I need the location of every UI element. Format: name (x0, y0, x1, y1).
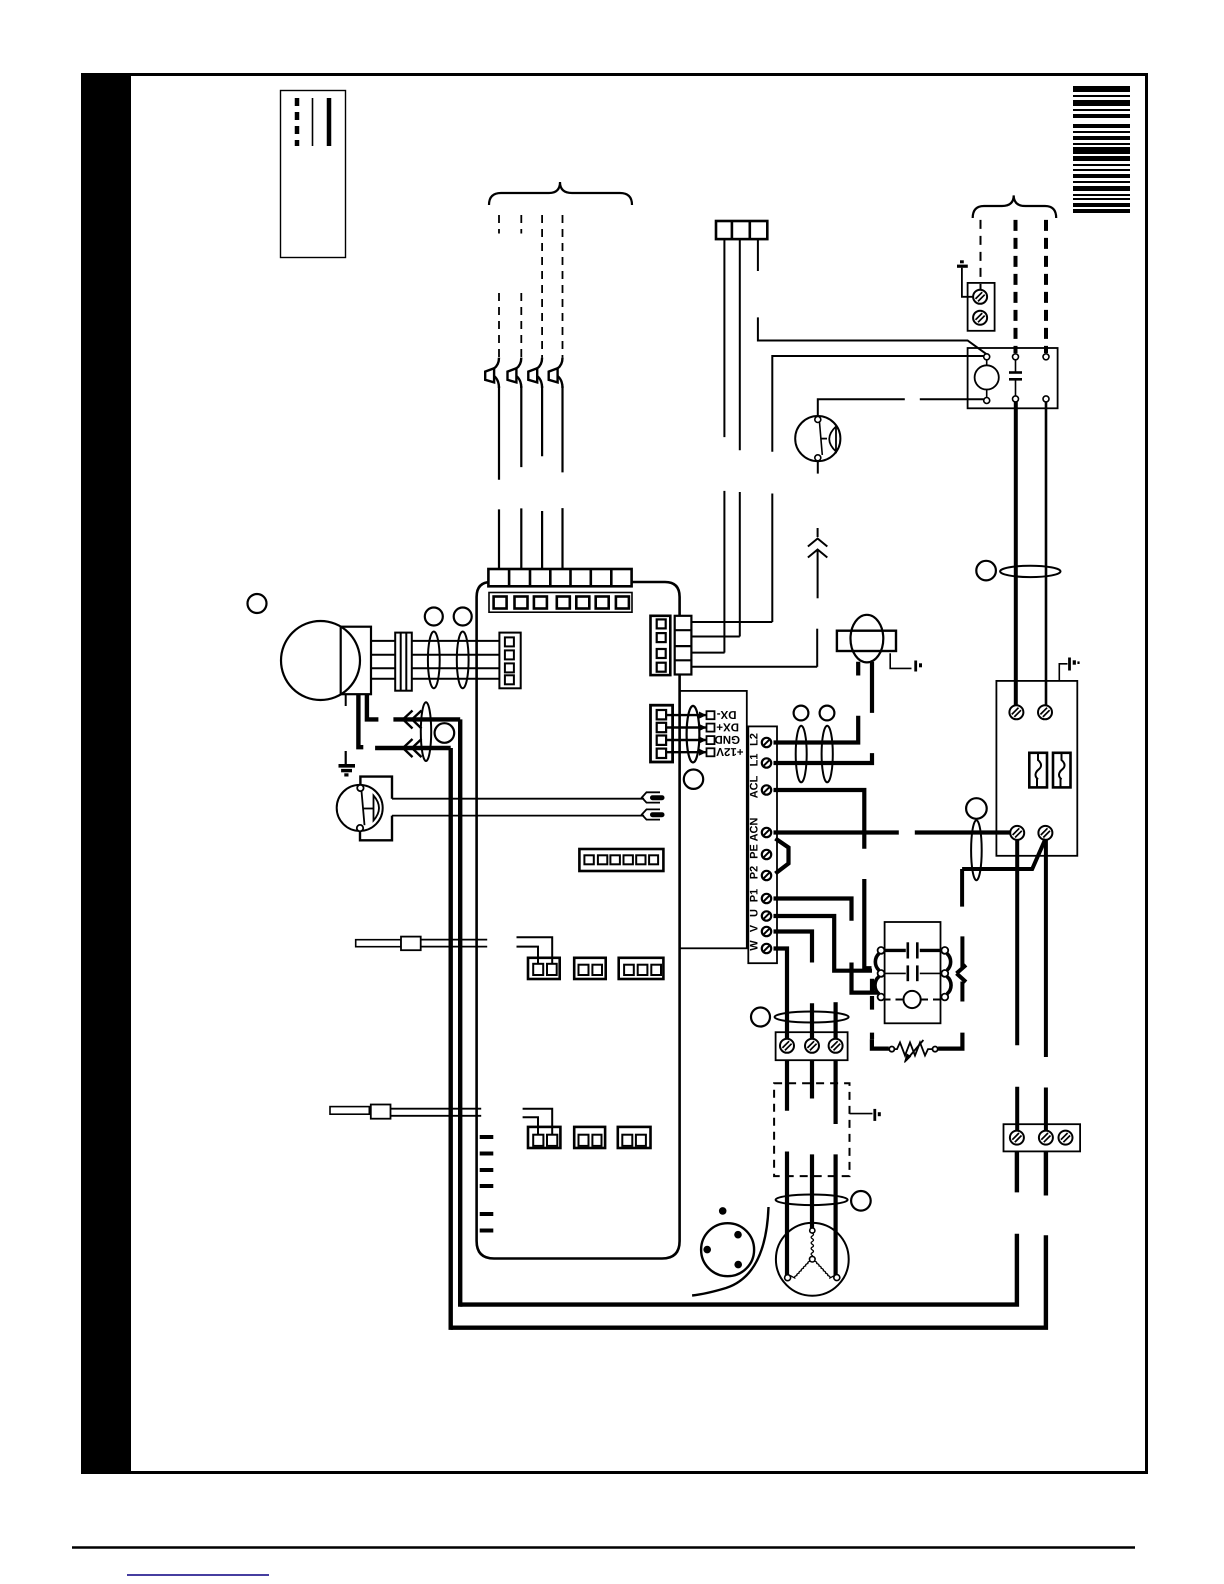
thermostat wire 1 to board (498, 386, 500, 569)
3-screw terminal block (776, 1032, 848, 1060)
+12V label (716, 748, 743, 756)
label P2 (750, 866, 758, 878)
cell2 drop wire (739, 239, 741, 636)
jumper block row1 J2 (2 pins) (574, 958, 606, 979)
dashed lead 3 (541, 215, 543, 358)
relay contacts bottom (984, 398, 990, 404)
jumper block row1 J1 (2 pins) (528, 958, 560, 979)
fuse 1 (1029, 753, 1047, 788)
DIP switch block S1 (579, 849, 663, 871)
PS1 blade (362, 791, 365, 825)
V wire (774, 932, 813, 1041)
barcode (1073, 86, 1130, 213)
ACN junction circle (966, 798, 987, 819)
terminal screw P1 (762, 894, 771, 903)
wire cell3 to riser (691, 652, 724, 654)
blower motor circle (281, 621, 360, 700)
control board outline (477, 582, 680, 1259)
field L1 dashed lead (thick) (1014, 220, 1018, 353)
relay coil circle (975, 365, 999, 389)
clamp ellipse L2/L1 a (796, 726, 807, 783)
run capacitor (1009, 360, 1022, 396)
PS2 diaphragm (829, 427, 836, 452)
left node circle (889, 1047, 894, 1052)
inducer switch PS2 circle (795, 416, 840, 461)
jumper row2 wires (523, 1109, 553, 1135)
disconnect screw out L (1010, 826, 1024, 840)
terminal interface box (680, 691, 747, 948)
clamp circle lower (851, 1191, 871, 1211)
ground screw 1 (973, 290, 987, 304)
label W (750, 940, 758, 950)
terminal screw V (762, 927, 771, 936)
cell1 drop wire (723, 239, 725, 652)
disconnect screw out N (1038, 826, 1052, 840)
thick riser B (inner) (458, 719, 462, 1306)
legend thin line (312, 98, 314, 146)
resistor zigzag (895, 1043, 933, 1056)
heat wire 2 w/ chevrons (375, 739, 451, 757)
disconnect/fuse box (996, 681, 1077, 856)
left black sidebar (81, 73, 131, 1474)
flag terminal 4 (549, 358, 563, 388)
cable clamp ellipse 1 (428, 632, 440, 689)
spade plug upper (642, 792, 665, 802)
PS1 wire upper to board (392, 798, 644, 800)
bottom loop inner (460, 1151, 1017, 1304)
field screw 2 (1039, 1131, 1053, 1145)
board pin header row (7 squares) (489, 593, 632, 613)
heat wire W w/ polarization chevrons (393, 711, 460, 729)
field screw 1 (1010, 1131, 1024, 1145)
PS1 bracket top (360, 777, 392, 799)
GND label (715, 736, 740, 744)
limit switch probe 2 (330, 1105, 481, 1119)
DX clamp ellipse (687, 706, 700, 763)
jumper row1 wires (517, 937, 553, 964)
label ACL (750, 776, 758, 798)
adjust arrow (906, 1040, 923, 1061)
wire nut circle left (248, 594, 267, 613)
valve ground branch (890, 653, 922, 671)
clamp circle (751, 1008, 770, 1027)
clamp circle a (794, 706, 809, 721)
dashed lead 1 (498, 215, 500, 358)
jumper block row2 J5 (2 pins) (574, 1127, 605, 1148)
relay/contactor box (968, 348, 1058, 408)
disconnect ground (1059, 658, 1079, 681)
power clamp ellipse (1000, 566, 1060, 577)
resistor right lead (938, 1033, 962, 1049)
bottom loop outer (451, 1151, 1046, 1327)
limit switch probe 1 (356, 937, 488, 951)
relay contacts top (984, 354, 990, 360)
label ACN (750, 818, 758, 841)
clamp ellipse on heat wires (421, 702, 431, 761)
motor contacts (810, 1228, 815, 1233)
flag terminal 3 (528, 358, 542, 388)
PS2 top wire to relay coil (818, 399, 984, 416)
DX wire arrowheads (699, 712, 707, 756)
plug arcs left (875, 954, 879, 971)
4-pin connector pair (top) plug side (651, 616, 671, 675)
blower motor terminal box (341, 627, 371, 695)
jumper block row2 J6 (2 pins) (618, 1127, 651, 1148)
terminal screw PE (762, 850, 771, 859)
thermostat wire 4 to board (561, 386, 563, 569)
field L2 dashed lead (thick) (1044, 220, 1048, 353)
block screw U (829, 1039, 843, 1053)
legend thick line (327, 98, 332, 146)
terminal screw ACL (762, 785, 771, 794)
U wire (774, 916, 873, 971)
motor leads (4) (371, 641, 499, 679)
clamp circle (435, 723, 455, 743)
page frame border (83, 75, 1147, 1473)
brace over thermostat leads (489, 182, 632, 205)
clamp circle 2 (454, 608, 472, 626)
dashed lead 2 (520, 215, 522, 358)
relay output left (thick) (1014, 402, 1018, 706)
power brace (973, 195, 1056, 218)
capacitor line 2 (thin) (884, 965, 945, 981)
ACN-P2 jumper (775, 839, 788, 874)
flow arrow on vent line (808, 528, 827, 598)
thermostat wire 2 to board (520, 386, 522, 569)
fuse 2 (1053, 753, 1071, 788)
lamp line (dashed) with lamp (884, 991, 945, 1008)
block screw W (780, 1039, 794, 1053)
power clamp circle (976, 561, 996, 581)
terminal screw W (762, 944, 771, 953)
dashed lead 4 (562, 215, 564, 358)
pressure switch PS1 circle (337, 785, 383, 831)
motor hot L-wire (thick) (358, 695, 363, 748)
harness sweep arc (692, 1207, 768, 1296)
board edge tick marks (480, 1137, 494, 1231)
clamp ellipse L2/L1 b (822, 726, 833, 783)
relay output right (1045, 402, 1048, 706)
bottom rule line (72, 1546, 1135, 1549)
motor ground stub (345, 695, 347, 707)
contact3 feed column (870, 979, 874, 1040)
field ground dashed lead (980, 220, 982, 290)
PS2 bottom wire (817, 461, 819, 474)
DX 4-pin connector plug (651, 705, 673, 762)
DX clamp circle (684, 770, 703, 789)
field wiring terminal block (3) (1004, 1124, 1081, 1151)
wye winding coils (790, 1233, 835, 1278)
L1 wire (774, 662, 873, 763)
spade plug lower (642, 809, 665, 819)
inline connector (double bar) (395, 633, 412, 691)
terminal screw L2 (762, 738, 771, 747)
jumper block row2 J4 (2 pins) (528, 1127, 560, 1148)
DX- label (717, 711, 736, 719)
board edge connector row (7 cells) (488, 569, 631, 586)
combustion motor circle (776, 1223, 849, 1296)
chassis ground tap (850, 1109, 881, 1121)
broken lead marks right of igniter (957, 936, 967, 1001)
disconnect screw in N (1038, 705, 1052, 719)
clamp ellipse (775, 1012, 849, 1023)
PS1 diaphragm (374, 796, 380, 821)
label L2 (750, 734, 758, 746)
right node circle (933, 1047, 938, 1052)
clamp circle 1 (425, 608, 443, 626)
igniter contacts right (941, 947, 948, 954)
gas valve solenoid rect (837, 631, 896, 651)
DX harness wires (666, 715, 707, 752)
flag terminal 1 (485, 358, 499, 388)
plug arcs right (947, 954, 951, 971)
wire cell2 to riser (691, 636, 739, 638)
ACN wire (774, 830, 1011, 834)
DX+ label (717, 723, 739, 731)
legend dashed line (295, 98, 300, 146)
jumper block row1 J3 (3 pins) (619, 958, 664, 979)
motor neutral L-wire (thick) (367, 695, 379, 720)
label U (750, 910, 758, 917)
harness connector circle w/ pins (701, 1223, 754, 1276)
coil leads (986, 360, 988, 398)
gas valve coil ellipse (851, 615, 884, 663)
capacitor line 1 (thick) (884, 942, 945, 958)
ground screw 2 (973, 311, 987, 325)
label L1 (750, 754, 758, 766)
cable clamp ellipse 2 (457, 632, 469, 689)
terminal screw L1 (762, 758, 771, 767)
wire cell1 to riser (691, 621, 772, 623)
neutral bus L (962, 839, 1045, 907)
PS1 wire lower to board (392, 815, 644, 817)
terminal screw strip box (748, 726, 777, 963)
wires below block (785, 1060, 789, 1277)
terminal screw P2 (762, 871, 771, 880)
PS2 contacts (815, 417, 821, 423)
block screw V (805, 1039, 819, 1053)
cell3 drop wire (758, 239, 987, 354)
field screw 3 (1059, 1131, 1073, 1145)
igniter box (885, 922, 941, 1023)
label P1 (750, 889, 758, 901)
legend box top-left (281, 91, 346, 258)
resistor left lead (872, 1039, 889, 1048)
terminal screw ACN (762, 828, 771, 837)
ground terminal box (968, 283, 995, 331)
DX pin squares on board header (707, 711, 715, 756)
ACL wire (774, 790, 872, 968)
U wire lower segment to block (833, 1002, 837, 1039)
3-cell connector (716, 221, 767, 239)
clamp ellipse lower (776, 1195, 848, 1206)
4-pin connector pair (top) header side (675, 616, 692, 675)
flag terminal 2 (508, 358, 522, 388)
PS2 blade (820, 422, 823, 455)
terminal screw U (762, 911, 771, 920)
ACN clamp ellipse (971, 820, 982, 880)
motor plug 4-pin on board (499, 633, 520, 689)
label PE (750, 845, 758, 859)
dashed enclosure box (774, 1083, 849, 1176)
thick riser A (outer) (449, 748, 453, 1330)
ground symbol (field) (957, 262, 973, 297)
vent line elbow to valve (816, 629, 818, 667)
P1 wire (774, 899, 878, 993)
W wire (774, 949, 788, 1041)
label V (750, 925, 758, 932)
disconnect screw in L (1009, 705, 1023, 719)
igniter contacts left (878, 947, 885, 954)
aux riser to cell1 wire (772, 356, 984, 622)
PS1 bracket bottom (360, 816, 392, 841)
ground symbol (339, 751, 356, 775)
wire cell4 to gas valve column (691, 666, 817, 668)
clamp circle b (820, 706, 835, 721)
disconnect output wires (1015, 840, 1019, 1132)
L2 wire (774, 662, 859, 743)
thermostat wire 3 to board (541, 386, 543, 569)
bottom blue link underline (127, 1574, 269, 1576)
PS1 contacts (357, 785, 363, 791)
